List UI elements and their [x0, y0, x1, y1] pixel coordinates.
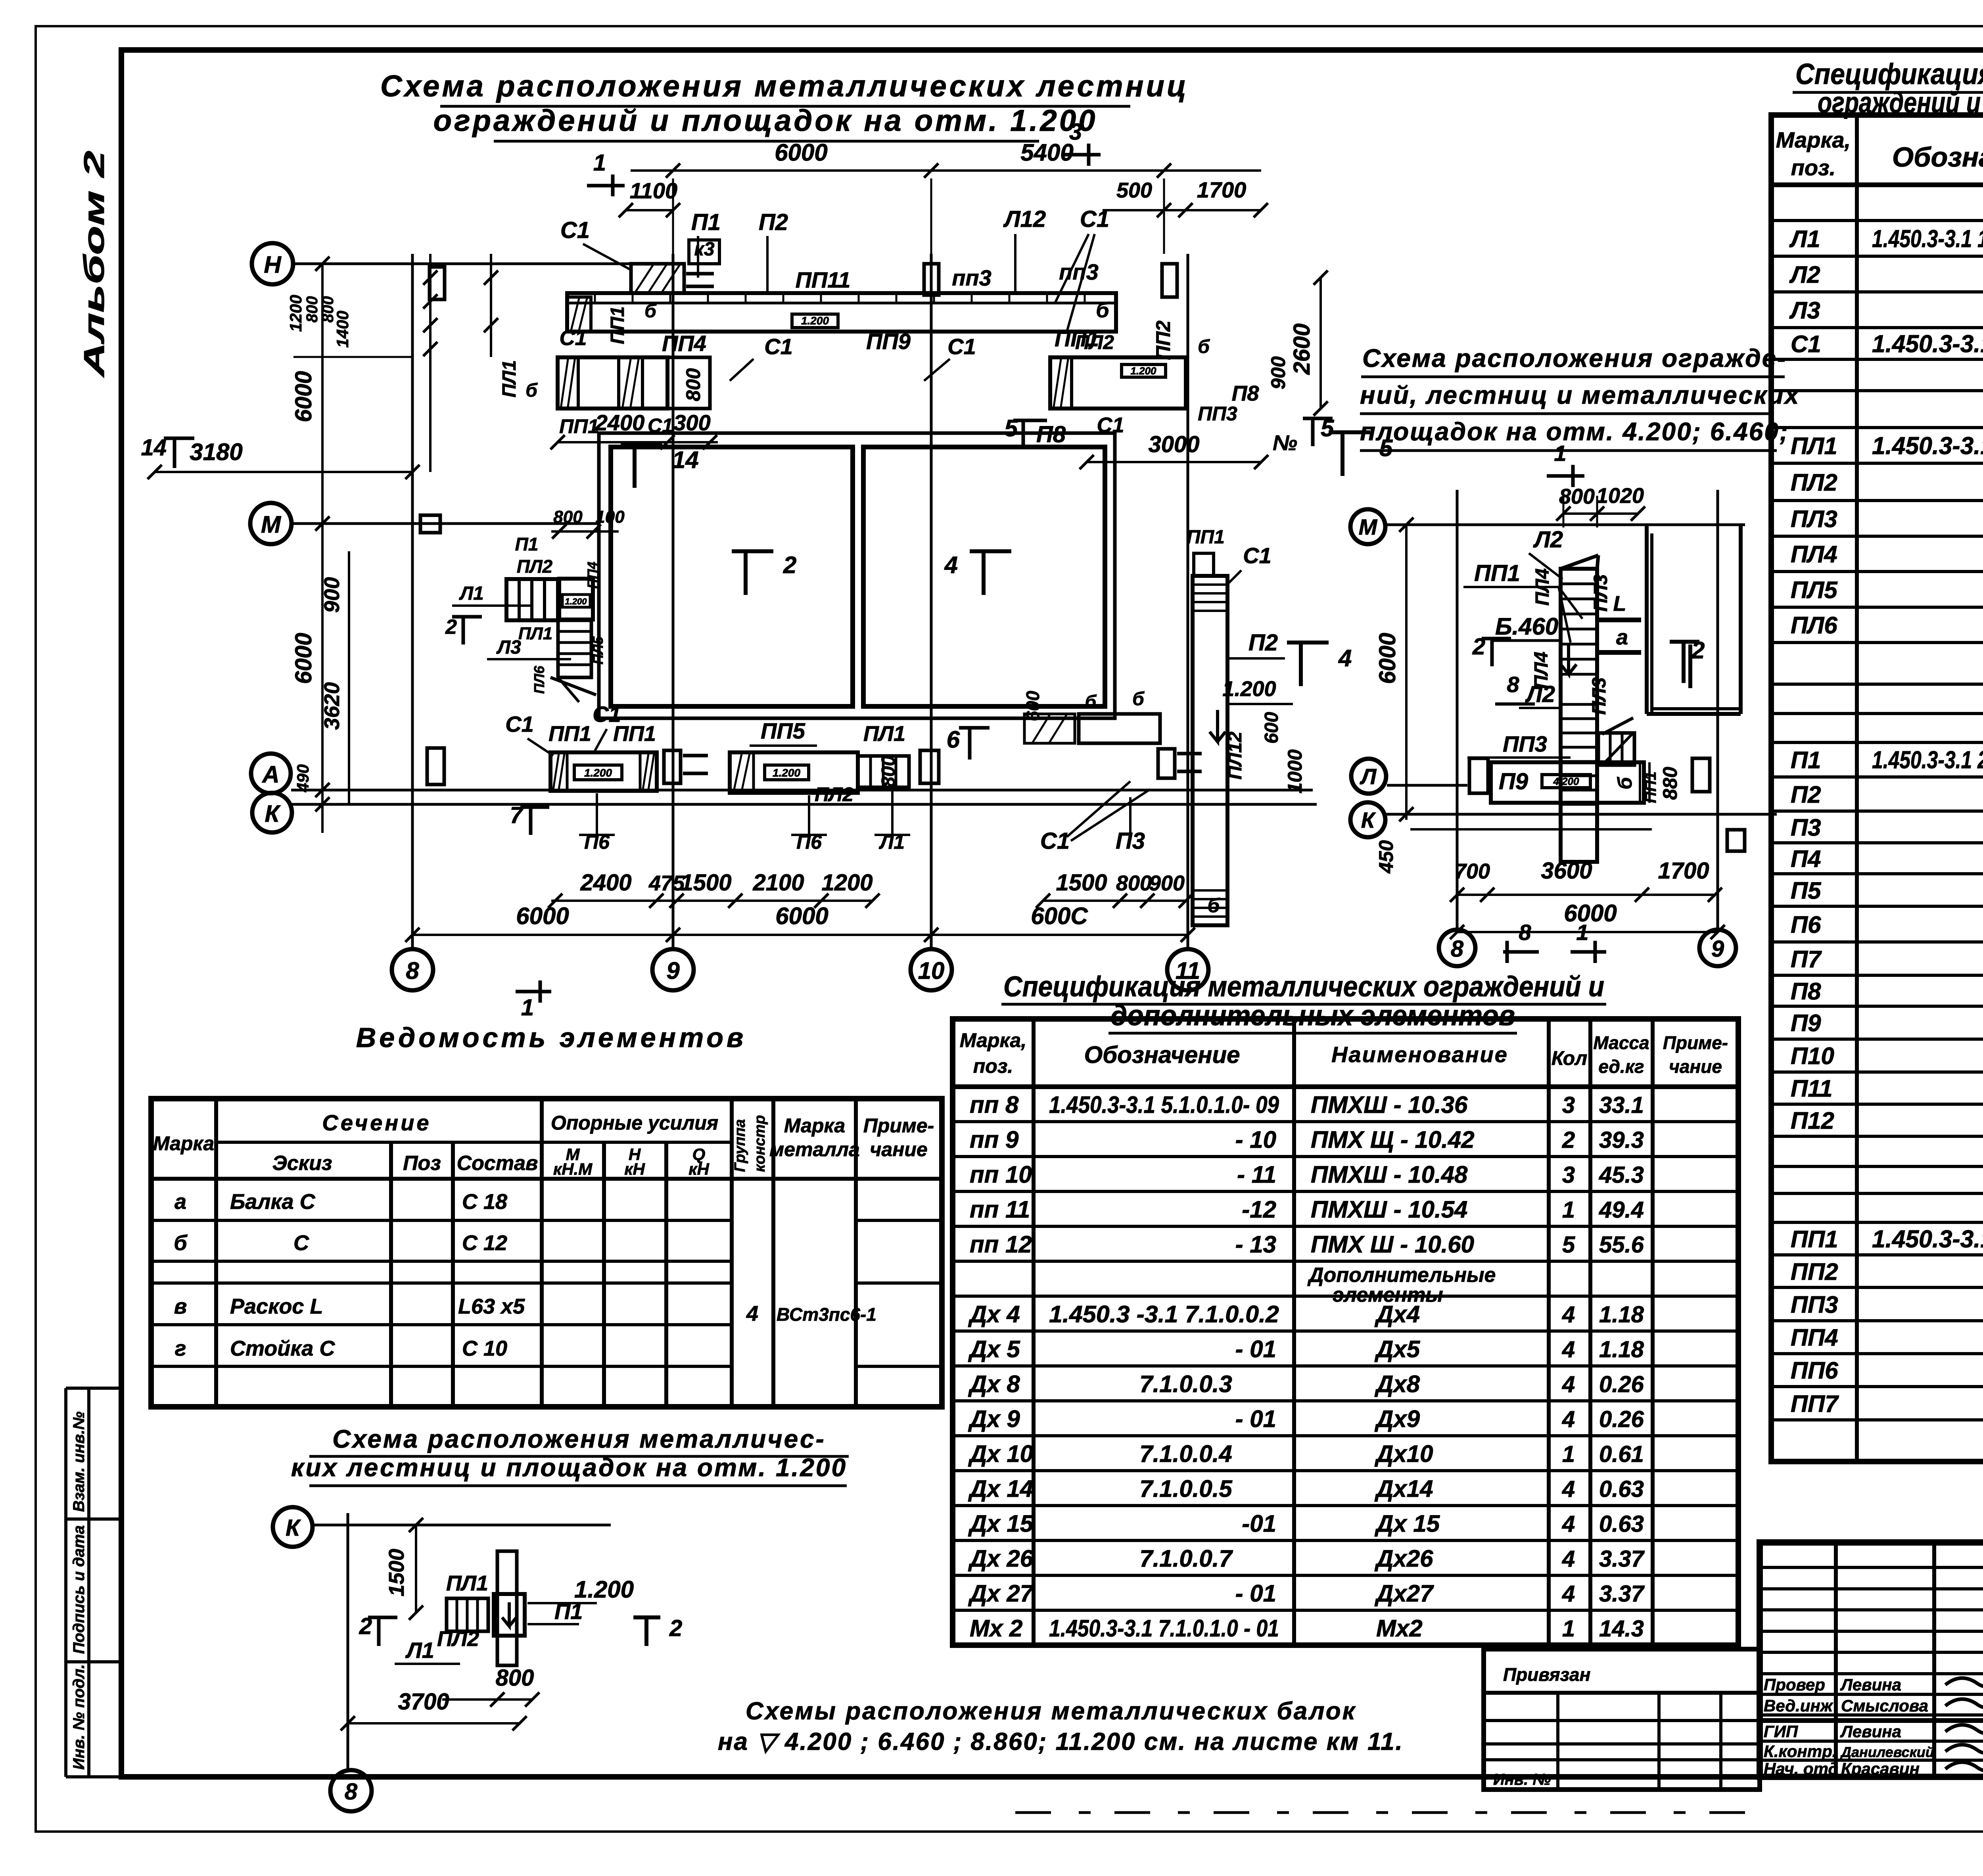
svg-text:ПП1: ПП1	[1642, 771, 1659, 803]
right plan 6.460 label	[1493, 613, 1576, 674]
svg-text:800: 800	[878, 756, 899, 787]
svg-text:ПП5: ПП5	[761, 718, 805, 743]
svg-text:10: 10	[918, 957, 945, 984]
svg-text:К: К	[286, 1515, 301, 1541]
svg-text:L: L	[1613, 592, 1626, 616]
right plan bottom dims	[1450, 858, 1725, 939]
right plan top dims	[1556, 484, 1645, 528]
axis line 8	[411, 254, 414, 949]
bl plan axis circle K	[273, 1507, 313, 1547]
svg-text:Дх 4: Дх 4	[968, 1301, 1020, 1327]
svg-text:ПЛ6: ПЛ6	[1791, 612, 1837, 639]
svg-text:1.450.3-3.1 5.1.0.1.0: 1.450.3-3.1 5.1.0.1.0	[1872, 1226, 1983, 1253]
axis circle 9	[652, 949, 694, 990]
svg-text:А: А	[261, 761, 279, 788]
svg-text:600: 600	[1261, 712, 1282, 744]
svg-text:800: 800	[553, 507, 583, 527]
column marker 8xH	[430, 267, 445, 299]
axis circle A	[251, 754, 291, 793]
svg-text:- 13: - 13	[1235, 1231, 1276, 1258]
labels P6 L1 bottom	[579, 789, 910, 853]
label P2	[759, 209, 788, 293]
svg-text:3620: 3620	[320, 682, 344, 730]
svg-text:С1: С1	[559, 326, 587, 350]
svg-text:Обозначение: Обозначение	[1084, 1042, 1240, 1068]
bl plan vert dim 1500	[385, 1518, 423, 1620]
bottom dim row B 6000	[405, 903, 1195, 942]
svg-text:П4: П4	[1791, 846, 1821, 872]
main plan title	[380, 69, 1189, 141]
svg-text:Смыслова: Смыслова	[1841, 1696, 1928, 1715]
svg-text:3180: 3180	[190, 439, 242, 465]
svg-text:П1: П1	[554, 1599, 583, 1624]
svg-text:3.37: 3.37	[1599, 1581, 1645, 1607]
right plan T2 mark	[1688, 645, 1692, 688]
svg-text:4: 4	[1562, 1476, 1575, 1502]
svg-text:Обозначение: Обозначение	[1892, 142, 1983, 173]
svg-text:1: 1	[1562, 1616, 1575, 1642]
svg-text:5: 5	[1562, 1232, 1575, 1258]
strip column block	[924, 264, 939, 295]
svg-text:L63 х5: L63 х5	[458, 1295, 525, 1318]
svg-text:4: 4	[1562, 1302, 1575, 1327]
svg-text:Мх2: Мх2	[1376, 1615, 1423, 1642]
svg-text:ПЛ2: ПЛ2	[815, 783, 853, 806]
svg-text:ПЛ1: ПЛ1	[863, 722, 905, 746]
svg-text:П2: П2	[759, 209, 788, 235]
bottom note text	[718, 1698, 1404, 1755]
section mark T2 in tank	[732, 551, 796, 595]
svg-text:1: 1	[593, 150, 606, 176]
svg-text:300: 300	[673, 410, 710, 435]
svg-text:ПП2: ПП2	[1791, 1258, 1838, 1285]
svg-text:П2: П2	[1248, 630, 1278, 656]
column marker 11xA	[1158, 749, 1175, 778]
svg-text:Опорные усилия: Опорные усилия	[551, 1112, 718, 1134]
svg-text:Стойка С: Стойка С	[230, 1337, 335, 1360]
right vertical strip platform P2	[1187, 527, 1293, 925]
svg-text:Сечение: Сечение	[322, 1110, 431, 1135]
axis circle 10	[911, 949, 952, 990]
svg-text:Балка С: Балка С	[230, 1190, 316, 1214]
svg-text:ПП6: ПП6	[1791, 1357, 1838, 1384]
svg-text:С: С	[293, 1231, 309, 1255]
svg-text:9: 9	[666, 957, 680, 984]
tank inner left	[611, 447, 853, 706]
svg-text:площадок на отм. 4.200; 6.46: площадок на отм. 4.200; 6.460;	[1360, 417, 1789, 446]
left vertical dims	[291, 257, 349, 833]
svg-text:Дх 15: Дх 15	[968, 1510, 1034, 1537]
svg-text:ПП3: ПП3	[1791, 1291, 1838, 1318]
svg-text:800: 800	[303, 296, 321, 323]
svg-text:металла: металла	[769, 1138, 860, 1161]
svg-text:Марка: Марка	[784, 1114, 845, 1137]
svg-text:2: 2	[783, 552, 796, 578]
svg-text:Кол: Кол	[1551, 1047, 1587, 1069]
svg-text:а: а	[1616, 625, 1628, 649]
svg-text:Раскос L: Раскос L	[230, 1295, 323, 1318]
svg-text:0.63: 0.63	[1599, 1511, 1644, 1537]
svg-text:Эскиз: Эскиз	[272, 1152, 332, 1175]
bl plan labels	[359, 1576, 683, 1664]
svg-text:пп3: пп3	[952, 265, 991, 290]
svg-text:8: 8	[1507, 672, 1519, 697]
svg-text:С1: С1	[764, 334, 793, 359]
svg-text:6000: 6000	[1564, 900, 1617, 926]
section mark 7	[510, 802, 549, 835]
svg-text:ПЛ3: ПЛ3	[1590, 574, 1611, 612]
svg-text:Дх9: Дх9	[1374, 1406, 1420, 1432]
svg-text:4: 4	[1562, 1581, 1575, 1607]
svg-text:Дх 27: Дх 27	[968, 1580, 1034, 1607]
svg-text:кН: кН	[624, 1160, 645, 1178]
right plan vertical dim	[1375, 518, 1413, 874]
bottom left attach column	[664, 750, 708, 783]
svg-text:ед.кг: ед.кг	[1598, 1056, 1644, 1077]
svg-text:1200: 1200	[821, 870, 873, 896]
svg-text:8: 8	[406, 957, 419, 984]
axis line 11	[1187, 254, 1189, 949]
right secondary platform	[1050, 331, 1210, 409]
svg-text:39.3: 39.3	[1599, 1127, 1644, 1153]
svg-text:ПП3: ПП3	[1503, 731, 1547, 756]
bottom middle platform	[730, 718, 905, 793]
tank outer rect	[599, 433, 1115, 718]
svg-text:Дх26: Дх26	[1374, 1545, 1433, 1572]
svg-text:П3: П3	[1791, 814, 1821, 841]
dim 14T 3180	[141, 435, 420, 479]
bottom dim row A	[548, 870, 1193, 908]
svg-text:2: 2	[1562, 1127, 1575, 1153]
svg-text:8: 8	[345, 1779, 358, 1805]
bottom middle attach column	[920, 750, 939, 783]
svg-text:1200: 1200	[286, 295, 305, 332]
svg-text:в: в	[174, 1295, 187, 1318]
svg-text:3: 3	[1562, 1092, 1575, 1118]
svg-text:49.4: 49.4	[1599, 1197, 1644, 1223]
section mark T4 right	[1287, 643, 1352, 686]
svg-text:1: 1	[1562, 1441, 1575, 1467]
strip elevation box 1.200	[792, 314, 838, 328]
svg-text:3.37: 3.37	[1599, 1546, 1645, 1572]
svg-text:3000: 3000	[1148, 432, 1199, 457]
right table header text	[1776, 127, 1983, 183]
svg-text:900: 900	[1149, 871, 1185, 895]
svg-text:4: 4	[1338, 645, 1352, 671]
svg-text:ПП1: ПП1	[1187, 527, 1225, 548]
svg-text:б: б	[174, 1231, 188, 1255]
svg-text:ПЛ1: ПЛ1	[499, 360, 520, 397]
svg-text:П8: П8	[1036, 422, 1066, 447]
svg-text:- 01: - 01	[1235, 1406, 1276, 1432]
svg-text:чание: чание	[870, 1138, 928, 1161]
svg-text:- 01: - 01	[1235, 1580, 1276, 1607]
section mark 1 bottom	[516, 980, 551, 1020]
right specification table grid	[1771, 115, 1983, 1462]
svg-text:ПЛ5: ПЛ5	[590, 636, 606, 665]
svg-text:пп 11: пп 11	[970, 1196, 1030, 1223]
svg-text:7.1.0.0.7: 7.1.0.0.7	[1139, 1545, 1233, 1572]
left secondary platform	[499, 326, 710, 409]
svg-text:0.63: 0.63	[1599, 1476, 1644, 1502]
left staircase ladder down	[550, 620, 596, 702]
bl plan axis line 8	[347, 1513, 349, 1769]
svg-text:-12: -12	[1242, 1196, 1276, 1223]
svg-text:Схемы расположения металличе: Схемы расположения металлических балок	[746, 1698, 1356, 1725]
label L12	[1003, 206, 1046, 293]
svg-text:1.450.3 -3.1 7.1.0.0.2: 1.450.3 -3.1 7.1.0.0.2	[1049, 1301, 1279, 1327]
svg-text:Левина: Левина	[1840, 1675, 1901, 1694]
svg-text:475: 475	[648, 871, 685, 895]
svg-text:Приме-: Приме-	[1663, 1032, 1728, 1053]
svg-text:кН: кН	[688, 1160, 710, 1178]
svg-text:1.200: 1.200	[773, 767, 800, 779]
svg-text:ПП4: ПП4	[585, 562, 600, 589]
tank inner right	[863, 447, 1105, 706]
svg-text:ВСт3пс6-1: ВСт3пс6-1	[777, 1304, 876, 1325]
svg-text:ПЛ2: ПЛ2	[1791, 469, 1837, 496]
svg-text:ПП9: ПП9	[866, 329, 911, 354]
svg-text:2400: 2400	[580, 870, 631, 896]
svg-text:ограждений и площадок на о: ограждений и площадок на отм. 1.200	[433, 104, 1098, 138]
svg-text:ПМХ Щ - 10.42: ПМХ Щ - 10.42	[1311, 1126, 1475, 1153]
svg-text:Схема расположения металличе: Схема расположения металличес-	[332, 1425, 826, 1453]
svg-text:6000: 6000	[291, 371, 316, 422]
svg-text:Альбом 2: Альбом 2	[79, 151, 110, 378]
strip left cap	[567, 297, 657, 344]
bl plan axis line K	[313, 1524, 611, 1527]
svg-text:б: б	[1085, 691, 1097, 712]
svg-text:Наименование: Наименование	[1331, 1042, 1508, 1067]
svg-text:№: №	[1273, 431, 1297, 455]
svg-text:1500: 1500	[385, 1549, 408, 1596]
svg-text:П12: П12	[1791, 1107, 1834, 1134]
svg-text:Дх 9: Дх 9	[968, 1406, 1020, 1432]
svg-text:Взам. инв.№: Взам. инв.№	[70, 1412, 88, 1512]
svg-text:ПЛ4: ПЛ4	[1532, 568, 1553, 606]
vedomost rows text	[174, 1190, 876, 1360]
svg-text:ПП11: ПП11	[796, 267, 851, 292]
svg-text:2600: 2600	[1289, 323, 1315, 375]
svg-text:4: 4	[1562, 1406, 1575, 1432]
middle table row text	[968, 1091, 1645, 1642]
svg-text:1400: 1400	[333, 311, 352, 347]
svg-text:1: 1	[521, 995, 534, 1020]
svg-text:800: 800	[682, 368, 704, 401]
svg-text:П5: П5	[1791, 877, 1822, 904]
svg-text:45.3: 45.3	[1599, 1162, 1644, 1188]
svg-text:6000: 6000	[291, 633, 316, 684]
left staircase flight	[506, 579, 558, 620]
svg-text:55.6: 55.6	[1599, 1232, 1644, 1258]
svg-text:С1: С1	[1040, 828, 1070, 854]
svg-text:Спецификация металлических: Спецификация металлических ограждений и	[1003, 971, 1604, 1003]
label C1 top-right	[1055, 206, 1109, 332]
svg-text:1.200: 1.200	[1130, 365, 1156, 377]
svg-text:Л: Л	[1360, 764, 1377, 789]
svg-text:1.200: 1.200	[584, 767, 612, 779]
svg-text:С1: С1	[560, 217, 590, 243]
label C1 top-left	[560, 217, 631, 270]
right plan section mark 1 top	[1547, 441, 1584, 487]
svg-text:Дх5: Дх5	[1374, 1336, 1421, 1362]
svg-text:К.контр.: К.контр.	[1764, 1742, 1837, 1761]
svg-text:ПМХШ - 10.36: ПМХШ - 10.36	[1311, 1091, 1468, 1118]
svg-text:П9: П9	[1499, 769, 1528, 794]
svg-text:2400: 2400	[595, 410, 645, 435]
right plan columns	[1469, 758, 1745, 851]
svg-text:Дх 14: Дх 14	[968, 1475, 1033, 1502]
right secondary platform labels	[1005, 382, 1335, 469]
svg-text:490: 490	[293, 764, 312, 792]
svg-text:ГИП: ГИП	[1764, 1722, 1798, 1741]
svg-text:800: 800	[1116, 871, 1152, 895]
right plan axis circle M	[1350, 509, 1385, 544]
svg-text:П1: П1	[515, 534, 539, 554]
svg-text:600C: 600C	[1031, 903, 1088, 929]
svg-text:1700: 1700	[1658, 858, 1709, 884]
svg-text:14.3: 14.3	[1599, 1616, 1644, 1642]
left stamp boxes	[66, 1388, 121, 1777]
svg-text:на ▽ 4.200 ; 6.460 ; 8.860;: на ▽ 4.200 ; 6.460 ; 8.860; 11.200 см. н…	[718, 1728, 1404, 1755]
axis circle K	[252, 793, 292, 832]
svg-text:С1: С1	[1243, 543, 1271, 568]
svg-text:П8: П8	[1791, 978, 1821, 1005]
left staircase labels	[445, 507, 625, 694]
svg-text:Ведомость элементов: Ведомость элементов	[356, 1022, 747, 1053]
svg-text:-01: -01	[1242, 1510, 1276, 1537]
svg-text:1.450.3-3.1 2.1.1.0.0 - 01: 1.450.3-3.1 2.1.1.0.0 - 01	[1872, 746, 1983, 774]
svg-text:ПЛ1: ПЛ1	[446, 1571, 488, 1595]
svg-text:1.450.3-3.1 5.1.0.1.0- 09: 1.450.3-3.1 5.1.0.1.0- 09	[1049, 1091, 1279, 1118]
svg-text:Л1: Л1	[459, 583, 484, 604]
svg-text:ПП1: ПП1	[1474, 560, 1520, 586]
svg-text:г: г	[175, 1337, 186, 1360]
svg-text:С1: С1	[505, 712, 534, 737]
svg-text:поз.: поз.	[1791, 155, 1836, 180]
svg-text:К: К	[1361, 808, 1376, 832]
svg-text:ПЛ5: ПЛ5	[1791, 577, 1838, 603]
svg-text:ПЛ2: ПЛ2	[517, 556, 553, 577]
svg-text:1: 1	[1554, 441, 1566, 466]
svg-text:4: 4	[944, 552, 958, 578]
right table row text	[1789, 191, 1983, 1418]
svg-text:ПП1: ПП1	[559, 415, 599, 437]
svg-text:6000: 6000	[1375, 633, 1400, 684]
svg-text:Дх 10: Дх 10	[968, 1441, 1033, 1467]
svg-text:1700: 1700	[1197, 177, 1247, 202]
svg-text:1.200: 1.200	[1222, 677, 1276, 701]
svg-text:ПЛ1: ПЛ1	[518, 624, 552, 643]
svg-text:П8: П8	[1232, 382, 1259, 405]
svg-text:С1: С1	[648, 414, 673, 437]
middle table title	[1001, 971, 1606, 1033]
right plan section marks 8 1 bottom	[1503, 920, 1606, 963]
svg-text:пп 8: пп 8	[970, 1091, 1019, 1118]
svg-text:С 18: С 18	[462, 1190, 507, 1214]
right plan lower side flight	[1598, 718, 1634, 765]
right plan labels	[1463, 527, 1705, 715]
svg-text:1.200: 1.200	[565, 597, 587, 606]
right plan staircase tower	[1561, 555, 1598, 862]
svg-text:ПМХШ - 10.54: ПМХШ - 10.54	[1311, 1196, 1467, 1223]
svg-text:1: 1	[1576, 920, 1588, 945]
svg-text:Провер: Провер	[1764, 1675, 1825, 1694]
svg-text:1500: 1500	[1056, 870, 1107, 896]
section mark T4 in tank	[944, 551, 1011, 595]
svg-text:Нач. отд: Нач. отд	[1764, 1759, 1838, 1778]
svg-text:Б.460: Б.460	[1495, 613, 1558, 640]
top platform strip	[567, 293, 1116, 332]
svg-text:3700: 3700	[398, 1689, 449, 1715]
svg-text:0.61: 0.61	[1599, 1441, 1644, 1467]
svg-text:ПМХ Ш - 10.60: ПМХ Ш - 10.60	[1311, 1231, 1474, 1258]
svg-text:ПЛ1: ПЛ1	[1791, 433, 1837, 459]
title block text	[1764, 1561, 1983, 1779]
svg-text:к3: к3	[694, 239, 714, 260]
svg-text:2: 2	[669, 1615, 682, 1641]
bl plan cross pipe	[494, 1551, 525, 1665]
svg-text:4: 4	[1562, 1511, 1575, 1537]
svg-text:Марка,: Марка,	[960, 1029, 1026, 1051]
svg-text:П1: П1	[691, 209, 721, 235]
bottom dashed line	[1015, 1811, 1757, 1814]
top dim row 2	[619, 177, 1268, 217]
svg-text:Марка,: Марка,	[1776, 127, 1851, 152]
svg-text:4: 4	[1562, 1546, 1575, 1572]
svg-text:Дх8: Дх8	[1374, 1371, 1420, 1397]
privyazan box	[1484, 1649, 1760, 1790]
svg-text:Дх 15: Дх 15	[1374, 1510, 1440, 1537]
svg-text:Поз: Поз	[403, 1152, 441, 1175]
strip left head box	[631, 264, 714, 293]
axis line 9	[672, 254, 675, 949]
svg-text:Л2: Л2	[1533, 527, 1563, 552]
svg-text:ПП2: ПП2	[1152, 320, 1174, 360]
svg-text:4: 4	[746, 1302, 758, 1325]
label PP11	[796, 267, 851, 292]
label k3 box	[689, 239, 719, 264]
svg-text:С1: С1	[1791, 331, 1821, 357]
bottom right platform pieces	[1022, 689, 1202, 778]
svg-text:Л2: Л2	[1789, 261, 1820, 288]
svg-text:ПП1: ПП1	[548, 722, 591, 746]
bottom left platform	[505, 702, 657, 791]
right plan axis circle K	[1350, 802, 1385, 837]
svg-text:1100: 1100	[630, 178, 677, 203]
svg-text:ПЛ2: ПЛ2	[437, 1627, 479, 1651]
svg-text:б: б	[1614, 776, 1636, 789]
svg-text:ПП1: ПП1	[1791, 1226, 1838, 1253]
svg-text:1.450.3-3.1 3.1.0.1.0: 1.450.3-3.1 3.1.0.1.0	[1872, 330, 1983, 358]
axis circle 8	[392, 949, 433, 990]
svg-text:Инв. №: Инв. №	[1493, 1771, 1551, 1788]
svg-text:б: б	[644, 301, 657, 322]
svg-text:0.26: 0.26	[1599, 1372, 1644, 1397]
svg-text:кН.М: кН.М	[553, 1160, 593, 1178]
svg-text:Дх14: Дх14	[1374, 1475, 1433, 1502]
svg-text:ПЛ3: ПЛ3	[1589, 677, 1610, 715]
left staircase platform	[559, 579, 593, 620]
axis circle 11	[1167, 949, 1208, 990]
svg-text:пп 9: пп 9	[970, 1126, 1019, 1153]
svg-text:б: б	[1132, 689, 1145, 710]
right table title	[1793, 58, 1983, 119]
svg-text:Л1: Л1	[1789, 226, 1820, 252]
svg-text:Л3: Л3	[496, 637, 521, 658]
svg-text:Дх 26: Дх 26	[968, 1545, 1034, 1572]
svg-text:П9: П9	[1791, 1010, 1821, 1036]
